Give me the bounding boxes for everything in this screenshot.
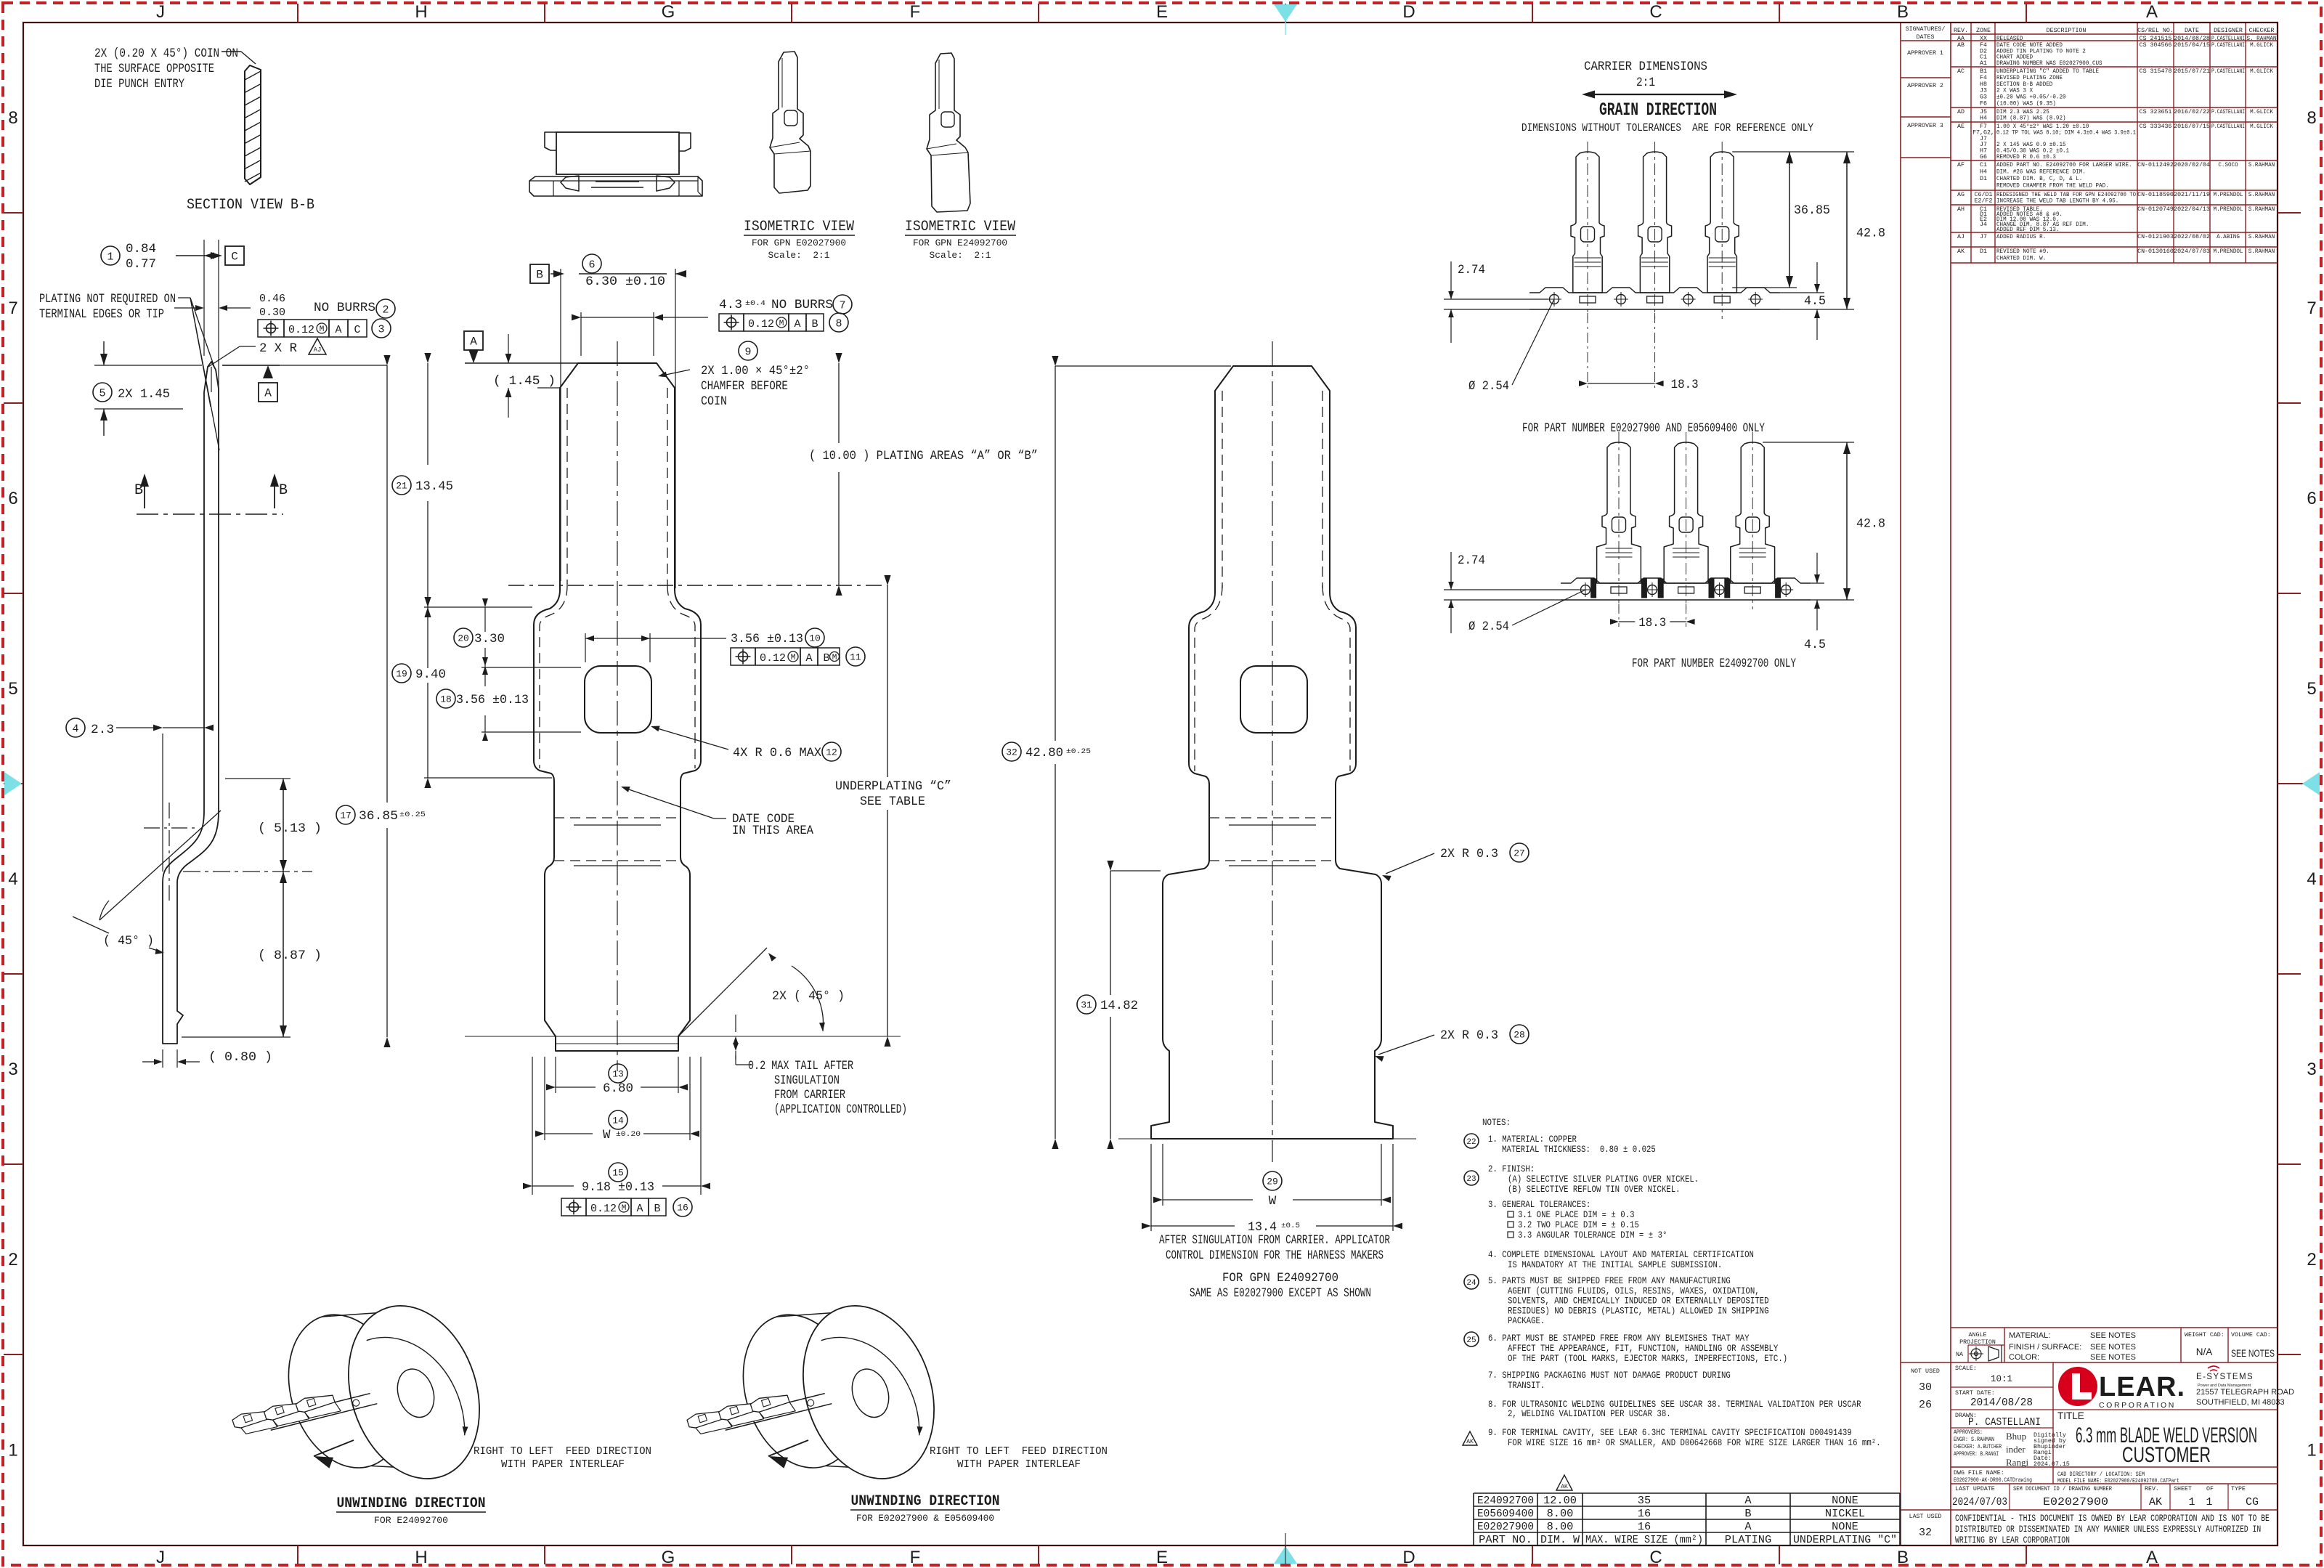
svg-text:DESIGNER: DESIGNER bbox=[2214, 28, 2243, 34]
date code dashed area bbox=[554, 817, 680, 818]
svg-text:3.2 TWO PLACE DIM = ± 0.15: 3.2 TWO PLACE DIM = ± 0.15 bbox=[1518, 1220, 1639, 1230]
svg-text:SAME AS E02027900 EXCEPT AS SH: SAME AS E02027900 EXCEPT AS SHOWN bbox=[1190, 1286, 1371, 1301]
svg-text:ADDED RADIUS R.: ADDED RADIUS R. bbox=[1996, 234, 2046, 240]
svg-text:0.12: 0.12 bbox=[748, 318, 774, 330]
svg-text:TITLE: TITLE bbox=[2057, 1410, 2084, 1421]
svg-text:P.CASTELLANI: P.CASTELLANI bbox=[2211, 68, 2245, 75]
svg-text:AK: AK bbox=[1466, 1439, 1474, 1445]
svg-text:CARRIER DIMENSIONS: CARRIER DIMENSIONS bbox=[1584, 60, 1707, 74]
svg-text:G6: G6 bbox=[1980, 154, 1987, 161]
svg-text:2: 2 bbox=[8, 1250, 17, 1270]
dim (31) 14.82 bbox=[1077, 995, 1096, 1014]
svg-text:E: E bbox=[1156, 1548, 1168, 1567]
svg-text:DISTRIBUTED OR DISSEMINATED IN: DISTRIBUTED OR DISSEMINATED IN ANY MANNE… bbox=[1955, 1524, 2261, 1535]
svg-text:MODEL FILE NAME: E02027900/E24: MODEL FILE NAME: E02027900/E24092700.CAT… bbox=[2057, 1477, 2179, 1484]
svg-text:8: 8 bbox=[2307, 108, 2316, 128]
svg-text:E02027900-AK-DR00.CATDrawing: E02027900-AK-DR00.CATDrawing bbox=[1954, 1476, 2032, 1484]
weld window rounded square bbox=[585, 666, 651, 733]
svg-text:0.12: 0.12 bbox=[590, 1203, 617, 1215]
svg-text:PART NO.: PART NO. bbox=[1479, 1534, 1532, 1546]
svg-text:NOTES:: NOTES: bbox=[1482, 1118, 1511, 1128]
svg-text:0.46: 0.46 bbox=[259, 293, 285, 305]
svg-text:S.RAHMAN: S.RAHMAN bbox=[2248, 248, 2275, 255]
svg-text:1. MATERIAL: COPPER: 1. MATERIAL: COPPER bbox=[1488, 1134, 1577, 1145]
svg-text:2.74: 2.74 bbox=[1458, 553, 1485, 568]
svg-text:C: C bbox=[1649, 2, 1662, 22]
svg-text:ADDED PART NO. E24092700 FOR L: ADDED PART NO. E24092700 FOR LARGER WIRE… bbox=[1996, 162, 2132, 168]
svg-text:SEE TABLE: SEE TABLE bbox=[860, 795, 925, 809]
svg-text:(APPLICATION CONTROLLED): (APPLICATION CONTROLLED) bbox=[774, 1102, 907, 1117]
FCF (3) bbox=[258, 320, 284, 337]
svg-text:SIGNATURES/: SIGNATURES/ bbox=[1906, 25, 1946, 33]
svg-text:E05609400: E05609400 bbox=[1477, 1508, 1534, 1520]
svg-text:3. GENERAL TOLERANCES:: 3. GENERAL TOLERANCES: bbox=[1488, 1200, 1590, 1210]
svg-text:Ø 2.54: Ø 2.54 bbox=[1468, 620, 1509, 634]
svg-text:FINISH / SURFACE:: FINISH / SURFACE: bbox=[2009, 1343, 2081, 1352]
svg-text:7: 7 bbox=[2307, 298, 2316, 318]
svg-text:RIGHT TO LEFT FEED DIRECTION: RIGHT TO LEFT FEED DIRECTION bbox=[930, 1445, 1108, 1458]
svg-text:N/A: N/A bbox=[2196, 1346, 2213, 1357]
svg-text:START DATE:: START DATE: bbox=[1955, 1390, 1995, 1397]
svg-text:FROM CARRIER: FROM CARRIER bbox=[774, 1088, 845, 1102]
svg-text:DIM. W: DIM. W bbox=[1540, 1534, 1580, 1546]
svg-text:NICKEL: NICKEL bbox=[1825, 1508, 1865, 1520]
svg-text:4: 4 bbox=[72, 723, 78, 735]
svg-text:E02027900: E02027900 bbox=[1477, 1521, 1534, 1533]
svg-text:A: A bbox=[1744, 1495, 1751, 1507]
svg-text:4: 4 bbox=[8, 869, 17, 889]
svg-text:E: E bbox=[1156, 2, 1168, 22]
svg-text:CG: CG bbox=[2246, 1496, 2259, 1508]
svg-text:10: 10 bbox=[809, 633, 821, 644]
svg-text:A: A bbox=[264, 387, 272, 400]
svg-text:SEE NOTES: SEE NOTES bbox=[2090, 1331, 2136, 1340]
svg-text:TRANSIT.: TRANSIT. bbox=[1508, 1381, 1545, 1391]
svg-text:A: A bbox=[805, 652, 812, 665]
svg-text:B: B bbox=[1897, 2, 1909, 22]
svg-text:3: 3 bbox=[378, 323, 384, 336]
svg-text:G: G bbox=[662, 2, 675, 22]
svg-text:B: B bbox=[654, 1203, 660, 1215]
svg-text:7: 7 bbox=[8, 298, 17, 318]
svg-text:CN-0120749: CN-0120749 bbox=[2137, 206, 2174, 213]
svg-text:S. RAHMAN: S. RAHMAN bbox=[2247, 36, 2277, 42]
svg-text:26: 26 bbox=[1919, 1399, 1932, 1411]
svg-text:MATERIAL:: MATERIAL: bbox=[2009, 1331, 2050, 1340]
svg-text:D1: D1 bbox=[1980, 176, 1987, 182]
svg-text:APPROVER 3: APPROVER 3 bbox=[1907, 123, 1943, 129]
svg-text:F4: F4 bbox=[1980, 75, 1987, 81]
svg-text:2X 1.00 × 45°±2°: 2X 1.00 × 45°±2° bbox=[701, 364, 810, 378]
svg-text:M: M bbox=[622, 1204, 627, 1213]
svg-text:CHAMFER BEFORE: CHAMFER BEFORE bbox=[701, 379, 788, 394]
svg-text:2021/11/19: 2021/11/19 bbox=[2174, 191, 2210, 198]
svg-text:APPROVER 2: APPROVER 2 bbox=[1907, 83, 1943, 89]
svg-text:CHECKER: CHECKER bbox=[2249, 28, 2275, 34]
svg-text:5: 5 bbox=[2307, 679, 2316, 699]
svg-text:C: C bbox=[231, 251, 238, 264]
svg-text:13.4: 13.4 bbox=[1248, 1220, 1277, 1235]
svg-text:M.PRENDOL: M.PRENDOL bbox=[2214, 248, 2243, 255]
svg-text:23: 23 bbox=[1466, 1175, 1476, 1184]
svg-text:4.5: 4.5 bbox=[1804, 294, 1826, 309]
svg-text:OF THE PART (TOOL MARKS, EJECT: OF THE PART (TOOL MARKS, EJECTOR MARKS, … bbox=[1508, 1354, 1787, 1364]
svg-text:16: 16 bbox=[1638, 1521, 1651, 1533]
left view 45 deg reference diagonal bbox=[99, 811, 221, 920]
svg-text:PLATING NOT REQUIRED ON: PLATING NOT REQUIRED ON bbox=[39, 292, 176, 306]
svg-text:9.18 ±0.13: 9.18 ±0.13 bbox=[582, 1180, 654, 1195]
svg-text:DIM. #26 WAS REFERENCE DIM.: DIM. #26 WAS REFERENCE DIM. bbox=[1996, 169, 2086, 176]
dim (13) 6.80 bbox=[609, 1064, 627, 1083]
svg-text:29: 29 bbox=[1267, 1177, 1278, 1187]
svg-text:2016/07/15: 2016/07/15 bbox=[2174, 123, 2210, 130]
svg-text:FOR PART NUMBER E24092700 ONLY: FOR PART NUMBER E24092700 ONLY bbox=[1632, 657, 1796, 671]
svg-text:8: 8 bbox=[8, 108, 17, 128]
svg-text:REV.: REV. bbox=[2145, 1486, 2159, 1492]
svg-text:35: 35 bbox=[1638, 1495, 1651, 1507]
svg-text:P. CASTELLANI: P. CASTELLANI bbox=[1968, 1416, 2041, 1429]
svg-text:3: 3 bbox=[8, 1060, 17, 1079]
dim (32) 42.80 bbox=[1002, 742, 1021, 761]
svg-text:SECTION VIEW B-B: SECTION VIEW B-B bbox=[187, 197, 314, 214]
svg-text:D1: D1 bbox=[1980, 248, 1987, 255]
svg-text:M: M bbox=[832, 654, 837, 662]
svg-text:IS MANDATORY AT THE INITIAL SA: IS MANDATORY AT THE INITIAL SAMPLE SUBMI… bbox=[1508, 1260, 1722, 1270]
svg-text:CS 323651: CS 323651 bbox=[2140, 109, 2172, 115]
svg-text:42.8: 42.8 bbox=[1856, 517, 1885, 532]
svg-text:CS 315478: CS 315478 bbox=[2140, 68, 2172, 75]
svg-text:2: 2 bbox=[2307, 1250, 2316, 1270]
svg-text:2014/08/28: 2014/08/28 bbox=[2174, 35, 2210, 42]
svg-text:7: 7 bbox=[839, 299, 845, 312]
svg-text:4. COMPLETE DIMENSIONAL LAYOUT: 4. COMPLETE DIMENSIONAL LAYOUT AND MATER… bbox=[1488, 1250, 1754, 1260]
svg-text:LAST USED: LAST USED bbox=[1909, 1514, 1942, 1520]
centering marks cyan bbox=[1274, 4, 1297, 22]
svg-text:G: G bbox=[662, 1548, 675, 1567]
svg-text:A: A bbox=[794, 318, 800, 330]
svg-text:2024.07.15: 2024.07.15 bbox=[2033, 1461, 2070, 1468]
svg-text:A: A bbox=[1744, 1521, 1751, 1533]
svg-text:21: 21 bbox=[396, 481, 407, 492]
grain direction arrow bbox=[1589, 94, 1730, 95]
svg-text:1: 1 bbox=[2188, 1496, 2195, 1508]
svg-text:D: D bbox=[1402, 2, 1415, 22]
svg-text:2016/02/22: 2016/02/22 bbox=[2174, 108, 2210, 115]
reel 2 (E02027900 & E05609400) bbox=[724, 1277, 955, 1514]
svg-text:2X R 0.3: 2X R 0.3 bbox=[1440, 847, 1498, 861]
svg-text:WRITING BY LEAR CORPORATION: WRITING BY LEAR CORPORATION bbox=[1955, 1535, 2070, 1545]
FCF (16) bbox=[561, 1198, 586, 1216]
svg-text:17: 17 bbox=[340, 811, 352, 821]
svg-text:M: M bbox=[779, 320, 784, 328]
svg-text:NA: NA bbox=[1956, 1352, 1963, 1358]
svg-text:S.RAHMAN: S.RAHMAN bbox=[2248, 192, 2275, 198]
svg-text:M: M bbox=[791, 654, 796, 662]
svg-text:0.84: 0.84 bbox=[126, 242, 156, 256]
svg-text:4: 4 bbox=[2307, 869, 2316, 889]
svg-text:J3: J3 bbox=[1980, 88, 1987, 94]
svg-text:CHECKER: A.BUTCHER: CHECKER: A.BUTCHER bbox=[1954, 1444, 2002, 1450]
underplating zone dim line bbox=[887, 585, 888, 777]
datum A left bbox=[222, 365, 280, 366]
svg-text:CS 333436: CS 333436 bbox=[2140, 123, 2172, 130]
svg-text:P.CASTELLANI: P.CASTELLANI bbox=[2211, 42, 2245, 49]
dim (20) 3.30 bbox=[454, 628, 473, 647]
svg-text:W: W bbox=[603, 1128, 611, 1142]
svg-text:2015/04/15: 2015/04/15 bbox=[2174, 41, 2210, 49]
svg-text:A.ABING: A.ABING bbox=[2217, 234, 2240, 240]
svg-text:4.3: 4.3 bbox=[719, 298, 742, 312]
svg-text:FOR GPN E02027900: FOR GPN E02027900 bbox=[752, 238, 846, 248]
svg-text:UNWINDING DIRECTION: UNWINDING DIRECTION bbox=[851, 1493, 1000, 1510]
svg-text:9. FOR TERMINAL CAVITY, SEE LE: 9. FOR TERMINAL CAVITY, SEE LEAR 6.3HC T… bbox=[1488, 1428, 1852, 1438]
svg-text:36.85: 36.85 bbox=[359, 809, 398, 824]
svg-text:H: H bbox=[415, 1548, 427, 1567]
svg-text:6: 6 bbox=[2307, 489, 2316, 508]
right view plating dashes bbox=[1222, 391, 1223, 588]
svg-text:2 X WAS 3 X: 2 X WAS 3 X bbox=[1996, 88, 2033, 94]
carrier view 1 (E02027900/E05609400) bbox=[1571, 152, 1604, 293]
svg-text:AB: AB bbox=[1957, 42, 1965, 49]
svg-text:FOR E02027900 & E05609400: FOR E02027900 & E05609400 bbox=[856, 1514, 994, 1524]
svg-text:B: B bbox=[823, 652, 829, 665]
svg-text:2024/07/03: 2024/07/03 bbox=[2174, 248, 2210, 255]
svg-text:8: 8 bbox=[835, 317, 842, 330]
svg-text:S.RAHMAN: S.RAHMAN bbox=[2248, 234, 2275, 240]
svg-text:F6: F6 bbox=[1980, 100, 1987, 107]
svg-text:DATES: DATES bbox=[1917, 34, 1935, 41]
svg-text:CONFIDENTIAL - THIS DOCUMENT I: CONFIDENTIAL - THIS DOCUMENT IS OWNED BY… bbox=[1955, 1514, 2270, 1524]
isometric view 1 drawing bbox=[770, 52, 810, 193]
svg-text:2.3: 2.3 bbox=[91, 723, 114, 737]
svg-text:M.GLICK: M.GLICK bbox=[2250, 123, 2273, 130]
svg-text:0.2 MAX TAIL AFTER: 0.2 MAX TAIL AFTER bbox=[748, 1059, 853, 1073]
left side view outline: thin blade bbox=[204, 362, 219, 811]
svg-text:9: 9 bbox=[744, 346, 751, 358]
svg-text:( 5.13 ): ( 5.13 ) bbox=[258, 821, 322, 836]
svg-text:5. PARTS MUST BE SHIPPED FREE: 5. PARTS MUST BE SHIPPED FREE FROM ANY M… bbox=[1488, 1276, 1731, 1286]
right view weld window bbox=[1240, 666, 1307, 733]
svg-text:42.80: 42.80 bbox=[1025, 746, 1063, 760]
svg-text:(B) SELECTIVE REFLOW TIN OVER: (B) SELECTIVE REFLOW TIN OVER NICKEL. bbox=[1508, 1185, 1681, 1195]
svg-text:P.CASTELLANI: P.CASTELLANI bbox=[2211, 123, 2245, 130]
svg-text:24: 24 bbox=[1466, 1279, 1476, 1288]
svg-text:B: B bbox=[1744, 1508, 1751, 1520]
dim (5) 2X 1.45 bbox=[93, 383, 112, 402]
svg-text:CHARTED DIM. B, C, D, & L.: CHARTED DIM. B, C, D, & L. bbox=[1996, 176, 2082, 182]
svg-text:2022/08/02: 2022/08/02 bbox=[2174, 233, 2210, 240]
chamfer note (9) bbox=[739, 341, 757, 360]
svg-text:0.12: 0.12 bbox=[288, 324, 314, 336]
svg-text:AG: AG bbox=[1957, 192, 1965, 198]
svg-text:DATE: DATE bbox=[2185, 28, 2199, 34]
svg-text:32: 32 bbox=[1006, 747, 1017, 758]
revision table bbox=[1900, 23, 1901, 1545]
dim (17) 36.85 bbox=[336, 805, 355, 824]
svg-text:CHARTED DIM. W.: CHARTED DIM. W. bbox=[1996, 256, 2046, 262]
svg-text:DIE PUNCH ENTRY: DIE PUNCH ENTRY bbox=[94, 77, 184, 92]
svg-text:AE: AE bbox=[1957, 123, 1965, 130]
svg-text:6.30 ±0.10: 6.30 ±0.10 bbox=[585, 275, 665, 289]
svg-text:AK: AK bbox=[1957, 248, 1965, 255]
svg-text:FOR WIRE SIZE 16 mm² OR SMALLE: FOR WIRE SIZE 16 mm² OR SMALLER, AND D00… bbox=[1508, 1438, 1881, 1448]
svg-text:AH: AH bbox=[1957, 206, 1965, 213]
svg-text:2024/07/03: 2024/07/03 bbox=[1952, 1496, 2007, 1508]
svg-text:J: J bbox=[156, 1548, 165, 1567]
svg-text:NOT USED: NOT USED bbox=[1911, 1368, 1940, 1375]
svg-text:( 8.87 ): ( 8.87 ) bbox=[258, 948, 322, 963]
svg-text:APPROVERS:: APPROVERS: bbox=[1954, 1429, 1983, 1436]
dim (1) 0.84/0.77 with [C] bbox=[101, 246, 120, 265]
svg-text:12.00: 12.00 bbox=[1543, 1495, 1577, 1507]
plating dashed lines inside part bbox=[566, 388, 568, 585]
svg-text:±0.25: ±0.25 bbox=[399, 811, 426, 819]
central view outline bbox=[534, 363, 701, 1051]
svg-text:4X R 0.6 MAX: 4X R 0.6 MAX bbox=[733, 746, 821, 760]
svg-text:RIGHT TO LEFT FEED DIRECTION: RIGHT TO LEFT FEED DIRECTION bbox=[474, 1445, 651, 1458]
svg-text:27: 27 bbox=[1514, 848, 1525, 859]
svg-text:VOLUME CAD:: VOLUME CAD: bbox=[2231, 1332, 2271, 1339]
svg-text:2X (0.20 X 45°) COIN ON: 2X (0.20 X 45°) COIN ON bbox=[94, 46, 238, 61]
svg-text:AC: AC bbox=[1957, 68, 1965, 75]
svg-text:25: 25 bbox=[1466, 1336, 1476, 1345]
svg-text:PLATING: PLATING bbox=[1725, 1534, 1771, 1546]
svg-text:20: 20 bbox=[458, 633, 469, 644]
svg-text:B: B bbox=[134, 482, 143, 499]
svg-text:1: 1 bbox=[2307, 1441, 2316, 1461]
svg-text:2, WELDING VALIDATION PER USCA: 2, WELDING VALIDATION PER USCAR 38. bbox=[1508, 1409, 1671, 1419]
svg-text:±0.20 WAS +0.05/-0.20: ±0.20 WAS +0.05/-0.20 bbox=[1996, 94, 2066, 101]
dim 13.4 bbox=[1150, 1144, 1152, 1231]
svg-text:2:1: 2:1 bbox=[1636, 76, 1655, 90]
svg-text:CN-0121903: CN-0121903 bbox=[2137, 234, 2174, 240]
svg-text:S.RAHMAN: S.RAHMAN bbox=[2248, 206, 2275, 213]
svg-text:3.56 ±0.13: 3.56 ±0.13 bbox=[731, 632, 803, 646]
svg-text:3: 3 bbox=[2307, 1060, 2316, 1079]
svg-text:2.74: 2.74 bbox=[1458, 263, 1485, 277]
svg-text:PACKAGE.: PACKAGE. bbox=[1508, 1316, 1545, 1326]
svg-text:5: 5 bbox=[8, 679, 17, 699]
svg-text:19: 19 bbox=[396, 669, 407, 680]
svg-text:B: B bbox=[811, 318, 818, 330]
svg-text:±0.5: ±0.5 bbox=[1281, 1222, 1300, 1230]
svg-text:CUSTOMER: CUSTOMER bbox=[2122, 1443, 2211, 1467]
svg-text:C: C bbox=[354, 324, 360, 336]
FCF (11) bbox=[731, 648, 755, 665]
FCF (8) bbox=[719, 314, 744, 331]
svg-text:RELEASED: RELEASED bbox=[1996, 36, 2023, 42]
svg-text:REV.: REV. bbox=[1954, 28, 1968, 34]
svg-text:3.3 ANGULAR TOLERANCE DIM = ±: 3.3 ANGULAR TOLERANCE DIM = ± 3° bbox=[1518, 1230, 1667, 1240]
svg-text:ENGR: S.RAHMAN: ENGR: S.RAHMAN bbox=[1954, 1437, 1994, 1443]
svg-text:Bhup: Bhup bbox=[2006, 1431, 2026, 1442]
svg-text:WITH PAPER INTERLEAF: WITH PAPER INTERLEAF bbox=[501, 1458, 625, 1471]
carrier view 2 (E24092700) bbox=[1597, 442, 1641, 583]
svg-text:J7: J7 bbox=[1980, 234, 1987, 240]
svg-text:AA: AA bbox=[1957, 36, 1965, 42]
reel 1 (E24092700) bbox=[269, 1277, 500, 1514]
svg-text:IN THIS AREA: IN THIS AREA bbox=[732, 824, 813, 838]
svg-text:E02027900: E02027900 bbox=[2043, 1496, 2108, 1508]
svg-text:AD: AD bbox=[1957, 109, 1965, 115]
svg-text:AGENT (CUTTING FLUIDS, OILS, R: AGENT (CUTTING FLUIDS, OILS, RESINS, WAX… bbox=[1508, 1286, 1760, 1296]
svg-text:UNDERPLATING “C”: UNDERPLATING “C” bbox=[835, 779, 951, 794]
svg-text:5: 5 bbox=[99, 387, 105, 399]
svg-text:AFTER SINGULATION FROM CARRIER: AFTER SINGULATION FROM CARRIER. APPLICAT… bbox=[1159, 1233, 1390, 1248]
svg-text:REMOVED R 0.6 ±0.3: REMOVED R 0.6 ±0.3 bbox=[1996, 154, 2056, 161]
svg-text:COIN: COIN bbox=[701, 394, 727, 409]
svg-text:E-SYSTEMS: E-SYSTEMS bbox=[2196, 1373, 2254, 1381]
svg-text:AFFECT THE APPEARANCE, FIT, FU: AFFECT THE APPEARANCE, FIT, FUNCTION, HA… bbox=[1508, 1344, 1779, 1354]
isometric view 2 drawing bbox=[927, 53, 970, 212]
svg-text:SEM DOCUMENT ID / DRAWING NUMB: SEM DOCUMENT ID / DRAWING NUMBER bbox=[2013, 1485, 2112, 1492]
svg-text:SOLVENTS, AND CHEMICALLY INDUC: SOLVENTS, AND CHEMICALLY INDUCED OR EXTE… bbox=[1508, 1296, 1769, 1307]
svg-text:H: H bbox=[415, 2, 427, 22]
svg-text:CAD DIRECTORY / LOCATION: SEM: CAD DIRECTORY / LOCATION: SEM bbox=[2057, 1471, 2145, 1478]
svg-text:( 10.00 ) PLATING AREAS “A” OR: ( 10.00 ) PLATING AREAS “A” OR “B” bbox=[809, 449, 1038, 463]
svg-text:A: A bbox=[2146, 2, 2158, 22]
svg-text:NO BURRS: NO BURRS bbox=[314, 301, 375, 315]
svg-text:30: 30 bbox=[1919, 1381, 1932, 1394]
svg-text:UNDERPLATING "C" ADDED TO TABL: UNDERPLATING "C" ADDED TO TABLE bbox=[1996, 68, 2099, 75]
svg-text:AJ: AJ bbox=[1957, 234, 1965, 240]
svg-text:16: 16 bbox=[1638, 1508, 1651, 1520]
svg-text:2022/04/13: 2022/04/13 bbox=[2174, 206, 2210, 213]
svg-text:AJ: AJ bbox=[314, 346, 322, 354]
svg-text:M.GLICK: M.GLICK bbox=[2250, 68, 2273, 75]
svg-text:9.40: 9.40 bbox=[415, 667, 446, 682]
svg-text:CN-0118590: CN-0118590 bbox=[2137, 192, 2174, 198]
svg-text:W: W bbox=[1269, 1194, 1277, 1209]
svg-text:11: 11 bbox=[850, 652, 861, 663]
svg-text:TYPE: TYPE bbox=[2231, 1486, 2246, 1492]
svg-text:DRAWING NUMBER WAS E02027900_C: DRAWING NUMBER WAS E02027900_CUS bbox=[1996, 60, 2102, 67]
svg-text:2020/02/04: 2020/02/04 bbox=[2174, 161, 2210, 168]
svg-text:REVISED NOTE #9.: REVISED NOTE #9. bbox=[1996, 248, 2049, 255]
svg-text:COLOR:: COLOR: bbox=[2009, 1353, 2039, 1362]
svg-text:±0.4: ±0.4 bbox=[745, 299, 765, 308]
svg-text:SEE NOTES: SEE NOTES bbox=[2090, 1343, 2136, 1352]
B-B section arrows bbox=[144, 476, 145, 508]
svg-text:32: 32 bbox=[1919, 1527, 1932, 1539]
svg-text:16: 16 bbox=[677, 1203, 688, 1214]
svg-text:CN-0112492: CN-0112492 bbox=[2137, 162, 2174, 168]
svg-text:THE SURFACE OPPOSITE: THE SURFACE OPPOSITE bbox=[94, 62, 214, 76]
svg-text:APPROVER: B.RANGI: APPROVER: B.RANGI bbox=[1954, 1451, 1999, 1458]
svg-text:LEAR.: LEAR. bbox=[2099, 1372, 2185, 1402]
svg-text:22: 22 bbox=[1466, 1138, 1476, 1147]
svg-text:2X ( 45° ): 2X ( 45° ) bbox=[772, 989, 845, 1004]
svg-text:XX: XX bbox=[1980, 36, 1987, 42]
svg-text:WITH PAPER INTERLEAF: WITH PAPER INTERLEAF bbox=[957, 1458, 1081, 1471]
svg-text:B: B bbox=[279, 482, 288, 499]
svg-text:6: 6 bbox=[588, 259, 595, 271]
svg-text:1: 1 bbox=[8, 1441, 17, 1461]
svg-text:A: A bbox=[636, 1203, 643, 1215]
svg-text:8.00: 8.00 bbox=[1547, 1508, 1574, 1520]
svg-text:H4: H4 bbox=[1980, 169, 1987, 176]
svg-text:28: 28 bbox=[1514, 1030, 1525, 1041]
svg-text:2015/07/21: 2015/07/21 bbox=[2174, 68, 2210, 75]
svg-text:ADDED REF DIM 5.13.: ADDED REF DIM 5.13. bbox=[1996, 227, 2059, 233]
svg-text:21557 TELEGRAPH ROAD: 21557 TELEGRAPH ROAD bbox=[2196, 1388, 2294, 1397]
svg-text:SHEET: SHEET bbox=[2174, 1486, 2192, 1492]
svg-text:CS/REL NO.: CS/REL NO. bbox=[2137, 27, 2174, 34]
svg-text:13: 13 bbox=[612, 1069, 624, 1080]
dim (18) 3.56 vertical bbox=[436, 689, 455, 708]
dim (4) 2.3 bbox=[66, 718, 85, 737]
svg-text:APPROVER 1: APPROVER 1 bbox=[1907, 50, 1943, 57]
